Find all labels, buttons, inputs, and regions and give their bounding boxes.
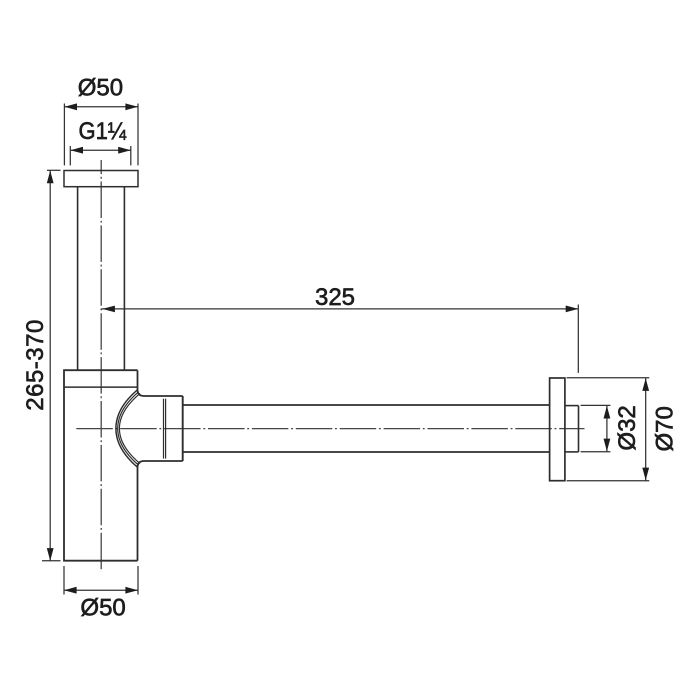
dim 265-370 dimension line xyxy=(49,171,51,561)
svg-text:Ø50: Ø50 xyxy=(78,74,123,101)
dim D32 dimension line xyxy=(606,405,608,451)
dim G1-1/4 extension line left xyxy=(69,146,71,165)
dim G1-1/4 dimension line xyxy=(70,149,130,151)
dim D70 extension line top xyxy=(567,377,650,379)
dim bottom D50 extension line right xyxy=(137,566,139,595)
dim D70 extension line bottom xyxy=(567,480,650,482)
dim bottom D50 extension line left xyxy=(63,566,65,595)
nut groove line right xyxy=(165,399,167,459)
dim 265-370 bottom extension tick xyxy=(42,560,61,562)
dim D70 dimension line xyxy=(645,378,647,481)
svg-text:Ø50: Ø50 xyxy=(80,595,125,622)
dim top D50 arrow left xyxy=(64,103,77,110)
wall flange xyxy=(550,378,565,481)
dim 265-370 arrow down xyxy=(47,548,54,561)
vertical center line (trap axis) xyxy=(100,160,102,572)
dim bottom D50 arrow left xyxy=(64,587,77,594)
dim G1-1/4 arrow left xyxy=(70,147,83,154)
inlet pipe wall right xyxy=(123,187,125,371)
wall stub pipe top xyxy=(565,405,578,407)
dim D32 extension line top xyxy=(581,404,611,406)
dim 325 arrow left xyxy=(102,306,115,313)
dim 265-370 top extension tick xyxy=(47,169,61,171)
horizontal center line (pipe axis) xyxy=(75,428,585,430)
svg-text:Ø70: Ø70 xyxy=(652,406,679,451)
wall stub pipe end xyxy=(578,406,580,452)
dim 325 arrow right xyxy=(566,306,579,313)
dim 265-370 arrow up xyxy=(47,171,54,184)
dim top D50 extension line right xyxy=(137,104,139,166)
elbow outer curve xyxy=(116,390,137,467)
dim D32 arrow down xyxy=(604,439,611,452)
svg-text:325: 325 xyxy=(315,284,355,311)
dim G1-1/4 arrow right xyxy=(118,147,131,154)
dim D70 arrow down xyxy=(642,468,649,481)
svg-text:Ø32: Ø32 xyxy=(614,405,641,450)
dim D32 arrow up xyxy=(604,406,611,419)
dim D70 arrow up xyxy=(642,378,649,391)
dim D32 extension line bottom xyxy=(581,451,611,453)
svg-text:G1¼: G1¼ xyxy=(79,118,128,145)
elbow inner curve xyxy=(119,393,140,463)
compression nut right edge xyxy=(182,396,184,461)
horizontal pipe bottom wall xyxy=(183,451,550,453)
body right edge lower with corner into nut xyxy=(138,461,183,561)
dim G1-1/4 extension line right xyxy=(130,146,132,165)
elbow middle curve xyxy=(118,392,139,465)
dim bottom D50 arrow right xyxy=(125,587,138,594)
horizontal pipe top wall xyxy=(183,404,550,406)
dim top D50 dimension line xyxy=(64,106,138,108)
nut groove line left xyxy=(163,399,165,459)
dim 325 right extension line xyxy=(577,305,579,373)
dim top D50 extension line left xyxy=(63,104,65,166)
trap body cup outline xyxy=(64,370,138,561)
dim 325 dimension line xyxy=(102,308,579,310)
dim top D50 arrow right xyxy=(125,103,138,110)
wall stub pipe bottom xyxy=(565,451,578,453)
dim bottom D50 dimension line xyxy=(64,589,138,591)
svg-text:265-370: 265-370 xyxy=(22,320,49,411)
inlet pipe wall left xyxy=(77,187,79,371)
body lid seam xyxy=(64,386,138,388)
body right edge upper with corner into nut xyxy=(138,370,183,396)
top flange (inlet rosette) xyxy=(64,171,138,187)
